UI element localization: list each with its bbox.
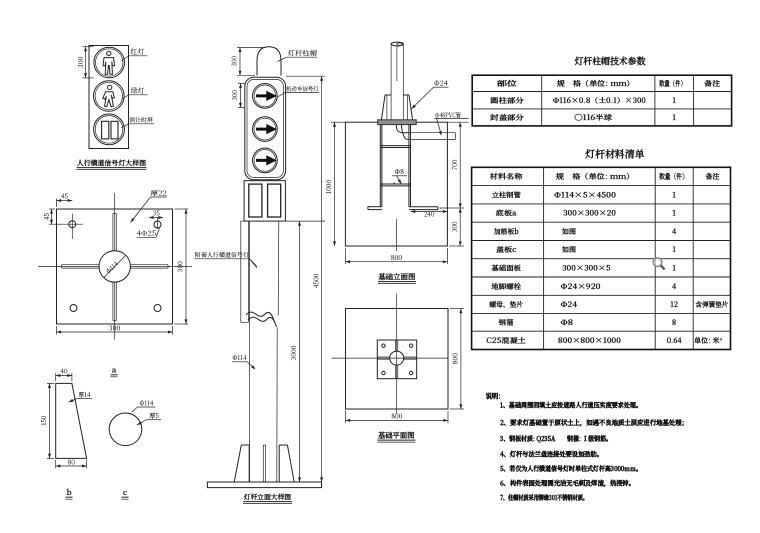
foundation plan square <box>346 309 449 410</box>
svg-text:240: 240 <box>424 210 434 219</box>
svg-text:备注: 备注 <box>705 172 721 182</box>
center anchor rod <box>263 445 265 482</box>
pipe diameter label <box>104 256 126 278</box>
red lamp ring <box>94 47 125 78</box>
note line 4 <box>499 448 603 458</box>
label green light <box>123 85 148 98</box>
svg-text:备注: 备注 <box>703 79 721 89</box>
anchor flange plate <box>378 120 417 125</box>
stirrup upper <box>380 146 410 148</box>
svg-text:厚14: 厚14 <box>78 390 90 399</box>
svg-text:Φ114: Φ114 <box>104 259 121 276</box>
svg-text:1、基础周围回填土应按道路人行道压实度要求处理。: 1、基础周围回填土应按道路人行道压实度要求处理。 <box>500 399 642 409</box>
svg-text:底板a: 底板a <box>495 209 517 219</box>
bolt foot left <box>368 207 382 210</box>
svg-text:Φ24: Φ24 <box>434 79 448 88</box>
svg-text:1: 1 <box>671 96 675 106</box>
svg-text:6、构件表面处理需光洁无毛刺及焊渣，热浸锌。: 6、构件表面处理需光洁无毛刺及焊渣，热浸锌。 <box>499 478 635 488</box>
dim 45 horizontal <box>57 192 73 207</box>
svg-text:300: 300 <box>76 57 85 69</box>
marker b <box>66 487 73 499</box>
svg-text:地脚螺栓: 地脚螺栓 <box>491 282 522 292</box>
label phi8 stirrup <box>392 167 407 184</box>
left base stiffener <box>234 445 249 482</box>
table 2 row 6 <box>491 282 677 292</box>
arrow lamp 3 <box>253 148 278 173</box>
stub taper sleeve <box>382 95 413 120</box>
svg-text:盖板c: 盖板c <box>496 245 517 255</box>
dim 300 cap <box>230 48 264 76</box>
svg-text:绿灯: 绿灯 <box>131 85 145 95</box>
svg-text:45: 45 <box>42 213 51 220</box>
svg-text:1: 1 <box>671 113 675 123</box>
table 1 header row <box>495 79 721 89</box>
vertical stiffener strip <box>113 214 116 321</box>
plan vertical centerline <box>396 294 398 415</box>
dim 800 plan bottom <box>346 411 449 423</box>
svg-text:5、若仅为人行横道信号灯时单柱式灯杆高3000mm。: 5、若仅为人行横道信号灯时单柱式灯杆高3000mm。 <box>500 463 642 473</box>
svg-text:1: 1 <box>671 263 675 273</box>
svg-text:150: 150 <box>39 416 48 426</box>
svg-text:说明:: 说明: <box>486 392 501 402</box>
svg-text:倒计时屏: 倒计时屏 <box>129 115 153 124</box>
pipe break wavy lines <box>246 312 277 327</box>
label pedestrian signal attach <box>250 259 257 268</box>
svg-text:300×300×20: 300×300×20 <box>563 209 617 219</box>
dim 240 bolt foot <box>411 210 448 219</box>
svg-text:800: 800 <box>391 412 402 421</box>
horizontal stiffener strip <box>62 265 169 268</box>
svg-text:300×300×5: 300×300×5 <box>562 263 612 273</box>
svg-text:300: 300 <box>450 222 459 232</box>
svg-text:800: 800 <box>451 353 460 364</box>
table 2 row 3 <box>493 227 677 237</box>
pole stub pipe <box>391 42 403 95</box>
pole cap dome <box>257 47 281 76</box>
svg-text:a: a <box>111 365 116 376</box>
svg-text:规 格（单位: mm）: 规 格（单位: mm） <box>555 79 634 89</box>
plate a outline <box>57 209 173 324</box>
svg-text:螺母、垫片: 螺母、垫片 <box>488 300 523 310</box>
table 2 row 8 <box>498 318 677 328</box>
dim 800 plan right <box>450 309 464 410</box>
label attached pedestrian signal <box>195 250 258 266</box>
foundation block <box>345 122 447 246</box>
svg-text:Φ24×920: Φ24×920 <box>561 282 602 292</box>
dim 150 left <box>39 383 54 458</box>
svg-text:80: 80 <box>68 457 75 466</box>
ground line <box>331 122 469 251</box>
svg-text:C25混凝土: C25混凝土 <box>485 336 526 346</box>
title pole elevation <box>243 491 292 503</box>
standing person icon <box>103 51 115 74</box>
svg-text:Φ114: Φ114 <box>232 353 246 362</box>
svg-text:基础立面图: 基础立面图 <box>377 272 416 283</box>
dim 4500 pole <box>286 76 325 482</box>
svg-text:Φ116×0.8（±0.1）×300: Φ116×0.8（±0.1）×300 <box>553 96 647 106</box>
dim 300 plate bottom <box>57 323 173 334</box>
svg-text:Φ114: Φ114 <box>140 398 154 407</box>
svg-text:灯杆材料清单: 灯杆材料清单 <box>585 147 645 161</box>
svg-text:8: 8 <box>671 318 677 328</box>
countdown lamp ring <box>94 114 125 145</box>
dim 1000 left <box>324 122 336 246</box>
svg-text:加筋板b: 加筋板b <box>493 227 520 237</box>
table 2 row 5 <box>491 263 676 273</box>
svg-text:b: b <box>67 487 73 498</box>
svg-text:钢箍: 钢箍 <box>498 318 514 328</box>
arrow lamp 1 <box>253 84 278 109</box>
svg-text:基础平面图: 基础平面图 <box>377 430 415 441</box>
table 2 header row <box>489 172 720 182</box>
svg-text:4500: 4500 <box>311 274 320 289</box>
bolt hole bottom-right <box>154 305 161 312</box>
plan horizontal centerline <box>332 357 449 359</box>
svg-text:厚22: 厚22 <box>151 189 167 198</box>
svg-text:数量（件）: 数量（件） <box>659 172 688 182</box>
svg-text:Φ24: Φ24 <box>561 300 578 310</box>
svg-text:Φ8: Φ8 <box>395 167 405 176</box>
svg-text:单位: 米³: 单位: 米³ <box>693 336 723 346</box>
note line 6 <box>499 478 635 488</box>
dim 700 right <box>440 122 465 208</box>
svg-text:灯杆柱帽: 灯杆柱帽 <box>288 48 318 58</box>
table 2 grid <box>472 167 731 349</box>
label thickness 14 <box>69 390 92 402</box>
label red light <box>122 46 148 60</box>
anchor bolt right <box>409 125 411 207</box>
svg-text:材料名称: 材料名称 <box>489 172 523 182</box>
plan center pipe <box>390 351 404 365</box>
dim 300 right lower <box>449 208 464 246</box>
svg-text:○116半球: ○116半球 <box>574 113 613 123</box>
bolt hole bottom-left <box>70 305 77 312</box>
svg-text:含弹簧垫片: 含弹簧垫片 <box>694 300 728 310</box>
svg-text:如图: 如图 <box>561 227 576 237</box>
pole base plate <box>207 482 321 488</box>
dim 300 lamp <box>230 83 245 107</box>
vehicle signal head box <box>245 77 286 180</box>
arrow lamp 2 <box>253 117 278 142</box>
countdown box on pole <box>244 181 285 221</box>
table 1 row cover <box>489 113 676 123</box>
plate a center pipe circle <box>99 251 130 282</box>
table 1 row cylinder <box>490 96 676 106</box>
svg-text:1: 1 <box>671 209 675 219</box>
plan stiffener cross <box>377 340 416 379</box>
svg-text:700: 700 <box>450 160 459 170</box>
right base stiffener <box>279 445 294 482</box>
pedestrian signal head outline <box>89 46 129 149</box>
svg-text:Φ114×5×4500: Φ114×5×4500 <box>554 190 617 200</box>
svg-text:2、要求灯基础置于原状土上，如遇不良地质土层应进行地基处理；: 2、要求灯基础置于原状土上，如遇不良地质土层应进行地基处理； <box>499 417 688 427</box>
svg-text:厚5: 厚5 <box>149 411 159 420</box>
note line 7 <box>499 492 588 502</box>
svg-text:灯杆立面大样图: 灯杆立面大样图 <box>243 491 291 501</box>
table 2 row 2 <box>495 209 676 219</box>
svg-text:45: 45 <box>61 192 68 201</box>
table 1 grid <box>472 75 731 126</box>
svg-text:300: 300 <box>108 323 120 332</box>
table 1 title cap parameters <box>575 54 647 68</box>
bolt hole top-left <box>62 214 83 240</box>
label pole cap <box>278 48 318 62</box>
label thickness 5 <box>137 411 161 425</box>
svg-text:灯杆柱帽技术参数: 灯杆柱帽技术参数 <box>575 54 647 68</box>
plan bolt holes <box>382 344 413 375</box>
svg-text:红灯: 红灯 <box>131 46 145 56</box>
anchor bolt left <box>380 125 382 207</box>
svg-text:4: 4 <box>671 282 676 292</box>
label pvc conduit <box>434 111 468 136</box>
dim 300 plate right <box>175 209 189 324</box>
svg-text:3、钢板材质: Q235A 钢箍: Ⅰ级钢筋。: 3、钢板材质: Q235A 钢箍: Ⅰ级钢筋。 <box>499 433 612 443</box>
svg-text:封盖部分: 封盖部分 <box>489 113 524 123</box>
svg-text:c: c <box>122 487 127 498</box>
svg-text:35: 35 <box>153 209 160 218</box>
svg-text:3000: 3000 <box>289 346 298 362</box>
svg-text:300: 300 <box>230 56 239 66</box>
note line 3 <box>499 433 612 443</box>
table 2 row 9 <box>485 336 723 346</box>
conduit elbow <box>396 125 455 140</box>
label phi114 cap <box>132 398 155 412</box>
marker c <box>122 487 129 499</box>
svg-text:立柱钢管: 立柱钢管 <box>492 190 522 200</box>
countdown bars <box>102 121 118 139</box>
table 2 title material list <box>585 147 645 161</box>
svg-text:4Φ25: 4Φ25 <box>137 229 156 238</box>
svg-text:7、柱帽材质采用铆缘301不锈钢材质。: 7、柱帽材质采用铆缘301不锈钢材质。 <box>499 492 588 502</box>
svg-text:1: 1 <box>671 190 675 200</box>
svg-text:4、灯杆与法兰盘连接处要设加劲肋。: 4、灯杆与法兰盘连接处要设加劲肋。 <box>499 448 603 458</box>
svg-text:300: 300 <box>230 90 239 100</box>
plan base plate <box>377 340 416 379</box>
note line 5 <box>500 463 642 473</box>
magnifier cursor artifact <box>653 258 664 269</box>
bolt foot right <box>409 207 438 210</box>
svg-text:机动车信号灯: 机动车信号灯 <box>286 84 319 93</box>
dim 3000 pole <box>286 221 326 482</box>
svg-text:1: 1 <box>671 245 675 255</box>
svg-text:规 格（单位: mm）: 规 格（单位: mm） <box>555 172 635 182</box>
label vehicle signal <box>278 84 320 97</box>
table 2 row 7 <box>488 300 728 310</box>
svg-text:12: 12 <box>669 300 678 310</box>
svg-text:800: 800 <box>391 253 402 262</box>
label phi114 pole <box>232 353 256 370</box>
title pedestrian signal detail <box>76 157 147 169</box>
cap plate c circle <box>109 413 142 446</box>
svg-text:数量（件）: 数量（件） <box>659 79 686 89</box>
note line 2 <box>499 417 688 427</box>
plate a horizontal centerline <box>38 265 192 267</box>
dim 300 lamp height <box>76 47 94 78</box>
dim 45 vertical <box>42 209 62 224</box>
stirrup lower <box>380 184 410 186</box>
marker a <box>111 365 118 377</box>
dim 35 <box>149 209 163 219</box>
notes heading <box>486 392 501 402</box>
label countdown display <box>121 115 154 128</box>
svg-text:300: 300 <box>176 261 185 273</box>
svg-text:如图: 如图 <box>561 245 576 255</box>
table 2 row 1 <box>492 190 676 200</box>
svg-text:基础面板: 基础面板 <box>491 263 522 273</box>
green lamp ring <box>94 81 125 112</box>
bolt hole top-right <box>154 217 161 229</box>
dim 800 foundation bottom <box>345 248 447 264</box>
svg-text:圆柱部分: 圆柱部分 <box>490 96 524 106</box>
title foundation plan <box>377 430 416 442</box>
pole shaft <box>250 221 279 482</box>
title foundation elevation <box>377 272 416 284</box>
dim 40 top <box>56 367 72 381</box>
label phi24 anchor <box>412 79 449 109</box>
stiffener b outline <box>56 383 87 458</box>
svg-text:Φ8: Φ8 <box>561 318 574 328</box>
walking person icon <box>103 85 115 107</box>
table 2 row 4 <box>496 245 676 255</box>
mounting bracket <box>241 221 249 322</box>
dim 80 bottom <box>56 457 87 468</box>
label plate thickness 22 <box>131 189 168 223</box>
svg-text:部位: 部位 <box>495 79 518 89</box>
svg-text:1000: 1000 <box>324 180 333 194</box>
plate a vertical centerline <box>114 193 116 340</box>
note line 1 <box>500 399 642 409</box>
label 4phi25 <box>137 228 160 238</box>
svg-text:40: 40 <box>60 367 67 376</box>
svg-text:800×800×1000: 800×800×1000 <box>557 336 622 346</box>
svg-text:人行横道信号灯大样图: 人行横道信号灯大样图 <box>76 157 146 167</box>
svg-text:4: 4 <box>671 227 676 237</box>
svg-text:0.64: 0.64 <box>666 336 682 346</box>
